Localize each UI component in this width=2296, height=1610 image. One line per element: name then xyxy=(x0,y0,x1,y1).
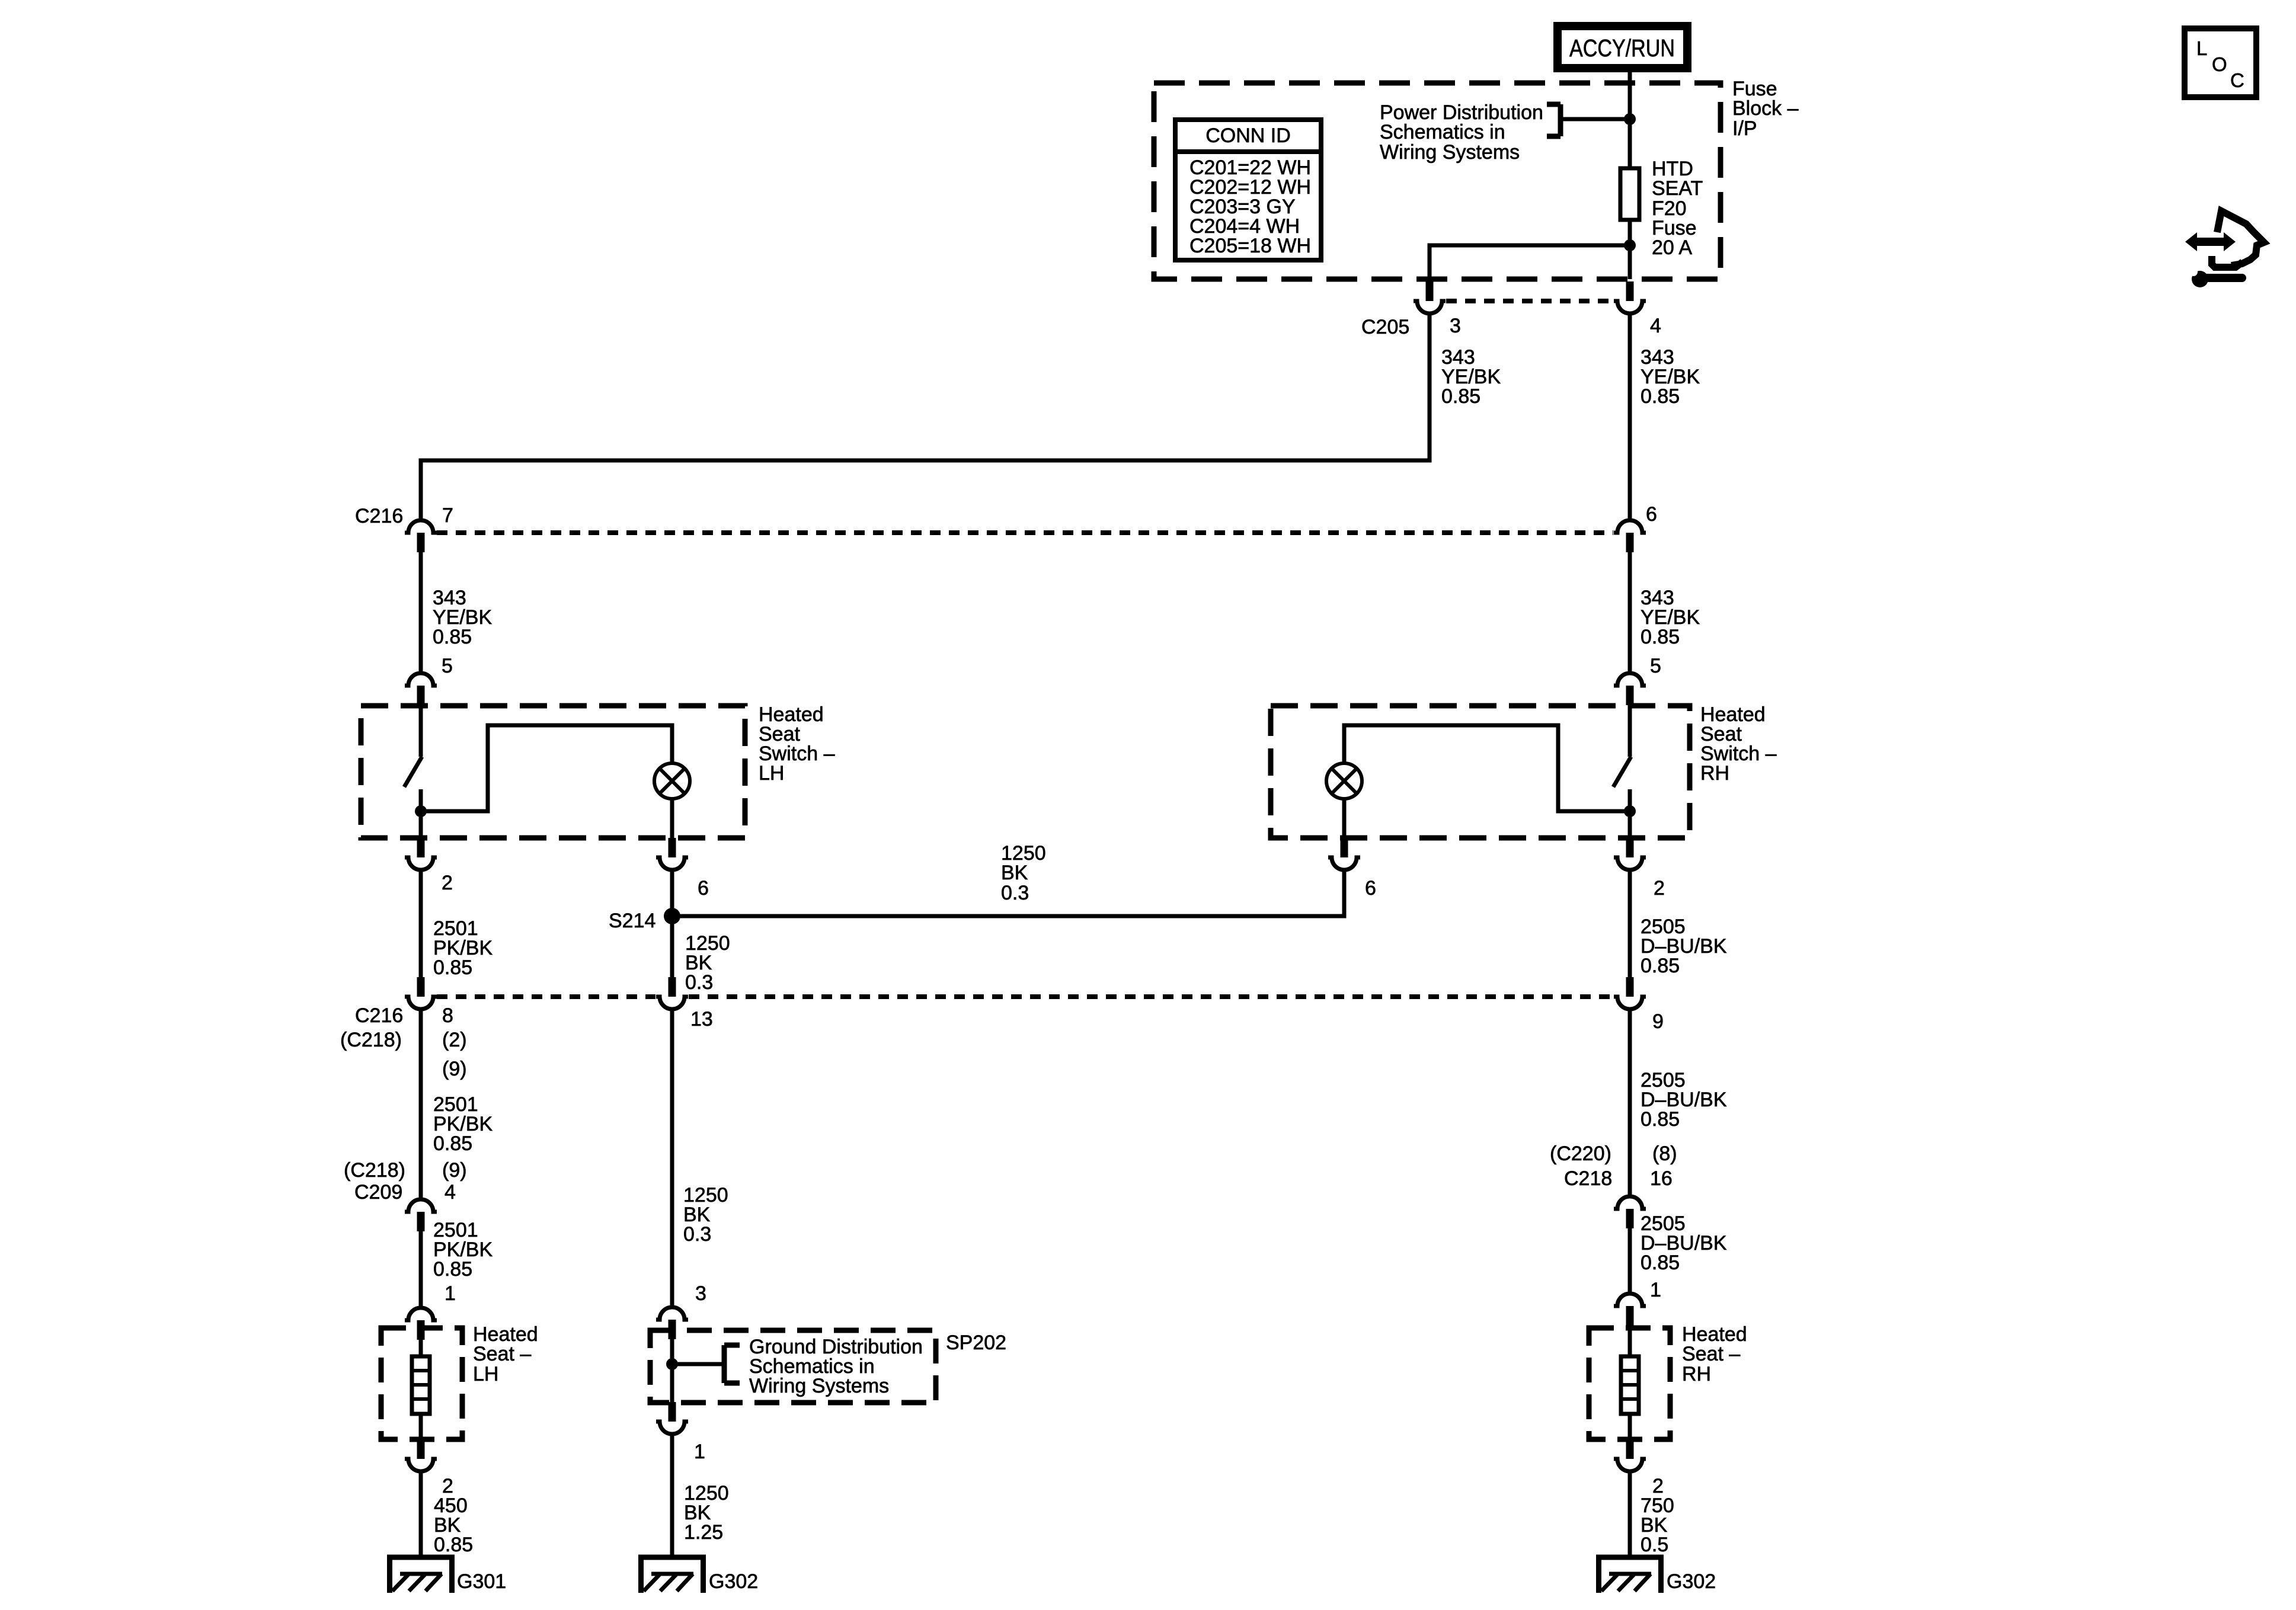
connector SP202 output pin 1 xyxy=(656,1402,688,1434)
connector heated seat RH pin 1 xyxy=(1614,1294,1646,1326)
pin label 4 xyxy=(1650,315,1661,337)
svg-text:(2): (2) xyxy=(442,1029,467,1051)
pin label 2 (LH switch) xyxy=(442,872,453,894)
wire LH switch to indicator lamp xyxy=(421,725,672,811)
switch S (RH) fixed contact wire xyxy=(1628,705,1632,757)
connector C218 pin 16 xyxy=(1614,1196,1646,1228)
wire 343 YE/BK left column to switch xyxy=(419,552,423,671)
svg-text:G301: G301 xyxy=(457,1570,506,1593)
wire 450 BK to G301 xyxy=(419,1473,423,1558)
pin label 6 (right) xyxy=(1646,503,1657,526)
connector RH switch pin 2 xyxy=(1614,838,1646,870)
svg-text:(8): (8) xyxy=(1652,1142,1677,1165)
svg-text:0.85: 0.85 xyxy=(1641,1251,1680,1274)
wire SP202 internal xyxy=(670,1334,674,1403)
svg-text:Schematics in: Schematics in xyxy=(1380,121,1505,143)
svg-text:9: 9 xyxy=(1652,1010,1664,1033)
pin label 5 (right) xyxy=(1650,655,1661,677)
label C218 pin 16 xyxy=(1564,1167,1673,1190)
ground G301 xyxy=(387,1555,455,1593)
label Heated Seat Switch - LH xyxy=(759,703,835,785)
svg-text:3: 3 xyxy=(1450,315,1461,337)
svg-text:LH: LH xyxy=(473,1363,498,1385)
connector C205 pin 4 xyxy=(1614,281,1646,313)
label (C220) (8) xyxy=(1550,1142,1677,1165)
pin label 13 xyxy=(690,1008,713,1030)
svg-text:I/P: I/P xyxy=(1732,117,1757,140)
junction node RH switch output xyxy=(1624,805,1636,817)
svg-text:Seat –: Seat – xyxy=(1682,1343,1740,1365)
connector C209 pin 4 xyxy=(405,1199,437,1231)
value label 1250 BK 0.3 (above pin 13) xyxy=(685,932,730,994)
junction node below fuse xyxy=(1624,239,1636,251)
svg-text:0.85: 0.85 xyxy=(433,1258,472,1281)
service icon arrow xyxy=(2185,232,2236,251)
svg-text:S214: S214 xyxy=(609,910,655,932)
svg-text:C216: C216 xyxy=(355,505,403,527)
value label 2505 D-BU/BK 0.85 (mid) xyxy=(1641,1069,1727,1131)
heated seat RH dashed box xyxy=(1589,1328,1670,1439)
pin label 2 (heated seat RH) xyxy=(1652,1475,1664,1497)
wire 343 YE/BK from C205-4 down xyxy=(1628,314,1632,519)
wire 2505 D-BU/BK RH pin2 down to C216 pin 9 xyxy=(1628,872,1632,978)
indicator lamp LH xyxy=(654,763,690,799)
service icon wrench xyxy=(2189,268,2242,287)
svg-text:0.85: 0.85 xyxy=(1641,385,1680,408)
svg-text:0.85: 0.85 xyxy=(1441,385,1480,408)
svg-text:SEAT: SEAT xyxy=(1652,177,1703,200)
heated seat switch RH dashed box xyxy=(1271,706,1690,838)
ground G302 (middle) xyxy=(638,1555,706,1593)
svg-text:0.85: 0.85 xyxy=(433,956,472,979)
svg-text:7: 7 xyxy=(442,504,453,527)
svg-text:4: 4 xyxy=(1650,315,1661,337)
svg-text:C205=18 WH: C205=18 WH xyxy=(1189,235,1311,257)
pin label 1 (SP202 output) xyxy=(694,1441,705,1463)
note Power Distribution Schematics in Wiring Systems xyxy=(1380,101,1543,164)
svg-text:2: 2 xyxy=(1654,877,1665,900)
svg-text:C216: C216 xyxy=(355,1004,403,1027)
svg-text:ACCY/RUN: ACCY/RUN xyxy=(1569,34,1675,62)
label (C218) (2) xyxy=(340,1029,467,1051)
value label 343 YE/BK 0.85 (right of pin 4) xyxy=(1641,346,1700,408)
pin label 6 (RH switch) xyxy=(1365,877,1376,900)
svg-text:(C218): (C218) xyxy=(340,1029,402,1051)
connector pin 13 xyxy=(656,977,688,1009)
value label 750 BK 0.5 xyxy=(1641,1494,1674,1556)
bracket callout to power distribution xyxy=(1547,104,1630,136)
svg-text:5: 5 xyxy=(1650,655,1661,677)
svg-text:(C218): (C218) xyxy=(344,1159,405,1182)
svg-text:1.25: 1.25 xyxy=(684,1521,723,1544)
connector LH switch pin 2 xyxy=(405,838,437,870)
value label 2501 PK/BK 0.85 (lower) xyxy=(433,1219,493,1281)
heater element LH xyxy=(412,1335,430,1439)
svg-text:4: 4 xyxy=(445,1181,456,1204)
value label 1250 BK 0.3 (splice run) xyxy=(1001,842,1046,904)
switch S (LH) blade xyxy=(404,757,422,787)
LOC legend box xyxy=(2185,28,2256,97)
value label 343 YE/BK 0.85 (left column) xyxy=(433,587,492,648)
svg-text:5: 5 xyxy=(442,655,453,677)
value label 450 BK 0.85 xyxy=(434,1494,473,1556)
pin label 1 (heated seat LH) xyxy=(445,1282,456,1305)
wire 2501 PK/BK C216-8 to C209 xyxy=(419,1011,423,1199)
svg-text:6: 6 xyxy=(1646,503,1657,526)
pin label 2 (heated seat LH) xyxy=(442,1475,453,1497)
junction node on feed xyxy=(1624,113,1636,125)
service icon animal head xyxy=(2212,211,2264,267)
label Heated Seat Switch - RH xyxy=(1700,703,1777,785)
connector heated seat LH pin 1 xyxy=(405,1308,437,1340)
inline connector row C216 dashed line xyxy=(437,530,1613,535)
svg-text:0.85: 0.85 xyxy=(433,626,472,648)
connector C216 pin 8 xyxy=(405,977,437,1009)
pin label 2 (RH switch) xyxy=(1654,877,1665,900)
svg-text:(9): (9) xyxy=(442,1159,467,1182)
pin label 6 (LH switch) xyxy=(698,877,709,900)
connector RH switch pin 6 xyxy=(1328,838,1360,870)
svg-text:1: 1 xyxy=(1650,1279,1661,1301)
svg-text:0.3: 0.3 xyxy=(1001,882,1029,904)
connector C205 pin 3 xyxy=(1414,281,1446,313)
switch S (LH) fixed contact wire xyxy=(419,705,423,757)
connector heated seat LH pin 2 xyxy=(405,1439,437,1471)
svg-text:1: 1 xyxy=(445,1282,456,1305)
label SP202 xyxy=(946,1331,1006,1354)
wire 2501 PK/BK C209 to heated seat LH xyxy=(419,1231,423,1307)
svg-text:2: 2 xyxy=(442,872,453,894)
svg-text:C205: C205 xyxy=(1361,316,1409,338)
inline connector row C216/8-13-9 dashed line xyxy=(437,994,1613,999)
ground G302 (right) xyxy=(1596,1555,1664,1593)
svg-text:G302: G302 xyxy=(1667,1570,1716,1593)
svg-text:6: 6 xyxy=(1365,877,1376,900)
svg-text:O: O xyxy=(2212,53,2227,75)
svg-text:C218: C218 xyxy=(1564,1167,1612,1190)
switch S (RH) blade xyxy=(1613,757,1631,787)
label S214 xyxy=(609,910,655,932)
heated seat LH dashed box xyxy=(381,1328,462,1439)
wire 2505 D-BU/BK C216-9 to C218 xyxy=(1628,1011,1632,1196)
svg-text:1: 1 xyxy=(694,1441,705,1463)
connector LH switch pin 6 xyxy=(656,838,688,870)
svg-text:20 A: 20 A xyxy=(1652,236,1692,259)
svg-text:C209: C209 xyxy=(354,1181,402,1204)
wire 343 YE/BK from C205-3 across to left column xyxy=(421,314,1430,519)
bracket callout to ground distribution xyxy=(672,1345,740,1383)
pin label 3 (SP202) xyxy=(695,1282,706,1305)
pin label 1 (heated seat RH) xyxy=(1650,1279,1661,1301)
svg-text:RH: RH xyxy=(1700,762,1729,785)
svg-text:BK: BK xyxy=(1001,862,1028,884)
svg-text:0.3: 0.3 xyxy=(685,971,713,994)
wire 2505 D-BU/BK C218 to heated seat RH xyxy=(1628,1228,1632,1292)
junction node LH switch output xyxy=(415,805,427,817)
value label 2501 PK/BK 0.85 xyxy=(433,917,493,979)
value label 1250 BK 0.3 (middle column) xyxy=(683,1184,728,1246)
wire LH lamp pin6 down to splice S214 xyxy=(670,872,674,978)
wire 2501 PK/BK LH pin2 down to C216 pin 8 xyxy=(419,872,423,978)
splice pack SP202 dashed box xyxy=(650,1330,936,1403)
connector SP202 pin 3 xyxy=(656,1307,688,1339)
svg-text:RH: RH xyxy=(1682,1363,1711,1385)
wire 750 BK to G302 xyxy=(1628,1473,1632,1558)
svg-text:G302: G302 xyxy=(709,1570,758,1593)
svg-text:0.85: 0.85 xyxy=(434,1534,473,1556)
svg-text:(C220): (C220) xyxy=(1550,1142,1611,1165)
wire 1250 BK pin13 down to SP202 xyxy=(670,1011,674,1307)
wire RH lamp to pin 6 xyxy=(1342,799,1347,838)
value label 2505 D-BU/BK 0.85 (upper) xyxy=(1641,916,1727,977)
wire tap to C205 pin 3 xyxy=(1430,245,1630,281)
value label 2505 D-BU/BK 0.85 (lower) xyxy=(1641,1212,1727,1274)
label Heated Seat - LH xyxy=(473,1323,538,1385)
fuse F20 HTD SEAT 20A xyxy=(1620,168,1639,279)
power tag ACCY/RUN xyxy=(1558,26,1687,68)
label Heated Seat - RH xyxy=(1682,1323,1747,1385)
value label 1250 BK 1.25 xyxy=(684,1482,729,1544)
note Ground Distribution Schematics in Wiring Systems xyxy=(749,1336,923,1397)
svg-text:6: 6 xyxy=(698,877,709,900)
svg-text:Wiring Systems: Wiring Systems xyxy=(1380,141,1520,164)
connector pin 5 left xyxy=(405,673,437,705)
switch S (LH) lower wire xyxy=(419,789,423,838)
svg-text:Wiring Systems: Wiring Systems xyxy=(749,1375,889,1397)
wire 1250 BK to G302 xyxy=(670,1436,674,1558)
label C216 (row 3) xyxy=(355,1004,403,1027)
label G301 xyxy=(457,1570,506,1593)
svg-text:C: C xyxy=(2230,69,2244,91)
wire 1250 BK S214 to RH pin 6 xyxy=(679,872,1344,916)
connector C216 pin 6 xyxy=(1614,520,1646,552)
connector C216 pin 9 xyxy=(1614,977,1646,1009)
heated seat switch LH dashed box xyxy=(361,706,745,838)
label C209 pin 4 xyxy=(354,1181,456,1204)
CONN ID table xyxy=(1175,120,1321,260)
svg-text:CONN ID: CONN ID xyxy=(1205,124,1291,147)
indicator lamp RH xyxy=(1326,763,1362,799)
svg-text:8: 8 xyxy=(442,1004,453,1027)
svg-text:0.85: 0.85 xyxy=(1641,955,1680,977)
label C205 xyxy=(1361,316,1409,338)
label C216 (row 2) xyxy=(355,505,403,527)
label (9) xyxy=(442,1058,467,1080)
svg-text:16: 16 xyxy=(1650,1167,1673,1190)
svg-text:13: 13 xyxy=(690,1008,713,1030)
connector pin 5 right xyxy=(1614,673,1646,705)
fuse block I/P dashed box xyxy=(1154,83,1721,279)
svg-text:3: 3 xyxy=(695,1282,706,1305)
svg-text:0.85: 0.85 xyxy=(433,1132,472,1155)
junction node SP202 xyxy=(666,1358,678,1370)
wire ACCY/RUN feed down to fuse xyxy=(1628,70,1632,171)
svg-text:SP202: SP202 xyxy=(946,1331,1006,1354)
connector heated seat RH pin 2 xyxy=(1614,1439,1646,1471)
wire LH lamp to pin 6 xyxy=(670,799,674,838)
pin label 9 xyxy=(1652,1010,1664,1033)
pin label 8 xyxy=(442,1004,453,1027)
connector C216 pin 7 xyxy=(405,520,437,552)
pin label 5 (left) xyxy=(442,655,453,677)
svg-text:(9): (9) xyxy=(442,1058,467,1080)
value label 2501 PK/BK 0.85 (mid) xyxy=(433,1093,493,1155)
label (C218) (9) xyxy=(344,1159,467,1182)
switch S (RH) lower wire xyxy=(1628,789,1632,838)
wire 343 YE/BK right column to switch xyxy=(1628,552,1632,671)
value label 343 YE/BK 0.85 (right column) xyxy=(1641,587,1700,648)
label Fuse Block I/P xyxy=(1732,78,1799,140)
label G302 (right) xyxy=(1667,1570,1716,1593)
svg-text:0.85: 0.85 xyxy=(1641,626,1680,648)
svg-text:0.3: 0.3 xyxy=(683,1223,711,1246)
value label 343 YE/BK 0.85 (left of pin 3) xyxy=(1441,346,1501,408)
label G302 (middle) xyxy=(709,1570,758,1593)
label HTD SEAT F20 Fuse 20 A xyxy=(1652,158,1703,259)
heater element RH xyxy=(1621,1320,1639,1439)
svg-text:L: L xyxy=(2196,37,2207,59)
pin label 7 xyxy=(442,504,453,527)
svg-text:0.5: 0.5 xyxy=(1641,1534,1668,1556)
svg-text:LH: LH xyxy=(759,762,784,785)
splice S214 node xyxy=(664,908,680,924)
wire RH switch to indicator lamp xyxy=(1344,725,1630,811)
pin label 3 xyxy=(1450,315,1461,337)
svg-text:Seat –: Seat – xyxy=(473,1343,531,1365)
inline connector row C205 dashed line xyxy=(1446,299,1613,303)
svg-text:Block –: Block – xyxy=(1732,97,1799,120)
svg-text:0.85: 0.85 xyxy=(1641,1108,1680,1131)
